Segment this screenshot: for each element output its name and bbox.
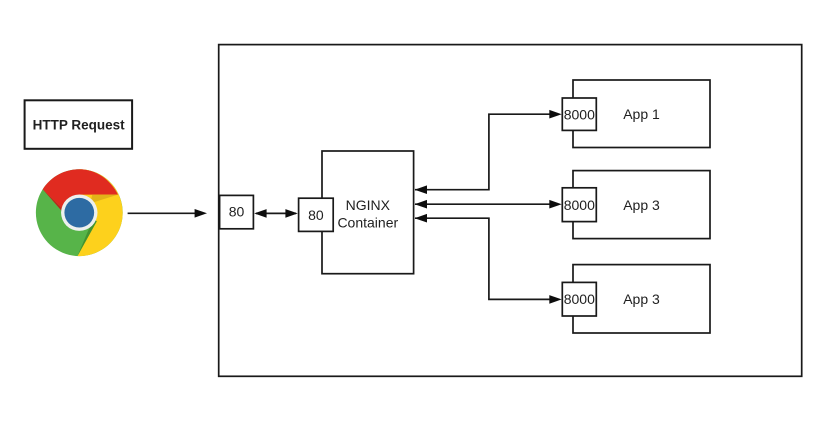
svg-text:8000: 8000: [564, 291, 595, 307]
svg-text:HTTP Request: HTTP Request: [33, 118, 126, 133]
svg-text:NGINX: NGINX: [346, 197, 391, 213]
svg-text:App 3: App 3: [623, 197, 660, 213]
svg-text:App 1: App 1: [623, 106, 660, 122]
svg-text:Container: Container: [337, 214, 398, 230]
svg-text:80: 80: [308, 207, 324, 223]
svg-text:8000: 8000: [564, 197, 595, 213]
svg-text:App 3: App 3: [623, 291, 660, 307]
svg-text:80: 80: [229, 204, 245, 220]
svg-text:8000: 8000: [564, 106, 595, 122]
